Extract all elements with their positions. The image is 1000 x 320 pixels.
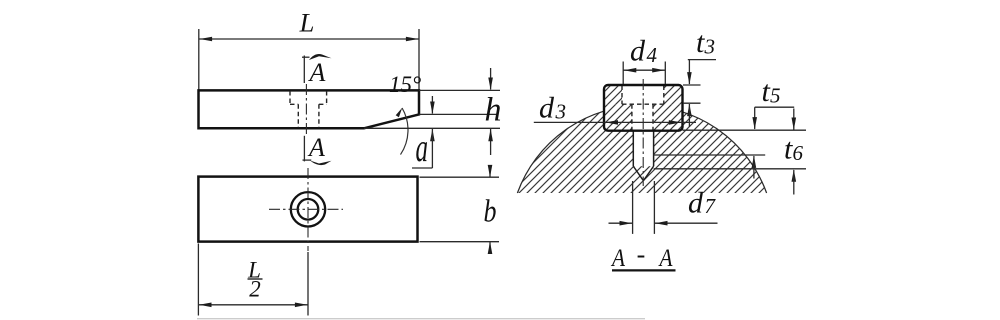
svg-text:d: d [539, 92, 555, 125]
svg-text:3: 3 [704, 35, 716, 59]
dimension b arrows [488, 165, 493, 254]
section title A-A [610, 240, 675, 272]
label t6 [784, 133, 804, 166]
dimension L extension lines [199, 29, 419, 90]
boss body with hatch [604, 85, 683, 131]
label d3 [539, 92, 566, 125]
faint table line bottom [197, 318, 645, 320]
dimension t3 arrows [687, 60, 716, 127]
svg-text:a: a [416, 125, 429, 170]
svg-text:6: 6 [793, 141, 804, 165]
extension line C cone level [654, 168, 806, 170]
label L over 2 [247, 258, 262, 302]
hole circle inner [298, 199, 319, 220]
extension line B hole depth [654, 154, 766, 156]
hidden hole dashed lines top view [298, 104, 319, 127]
svg-text:d: d [688, 187, 704, 220]
label A bottom [307, 133, 325, 162]
label h [485, 92, 502, 129]
dimension L half line with arrows [198, 303, 308, 308]
boss top extension line right [683, 84, 701, 86]
hole hidden dashed in boss [632, 104, 653, 130]
centerline vertical bar [305, 84, 307, 136]
svg-text:4: 4 [647, 43, 658, 67]
svg-text:5: 5 [770, 84, 781, 108]
svg-text:-: - [637, 240, 646, 269]
svg-text:h: h [485, 92, 502, 129]
dimension h arrows [488, 68, 493, 155]
svg-text:2: 2 [249, 277, 261, 302]
dimension d4 extension lines [623, 62, 665, 85]
centerline vertical section [642, 79, 644, 186]
dimension t6 arrows [792, 109, 797, 195]
section marker A bottom [303, 136, 332, 165]
label L [299, 8, 315, 38]
svg-text:b: b [484, 193, 497, 229]
hatched dome section [517, 106, 766, 193]
bar outline side view [199, 90, 420, 128]
svg-text:A: A [658, 245, 673, 272]
drill cone tip [633, 166, 653, 181]
centerline horizontal circle [269, 208, 343, 210]
label d4 [630, 35, 658, 68]
counterbore circle outer [291, 192, 325, 226]
label 15 degrees [389, 72, 421, 97]
label b [484, 193, 497, 229]
dimension L line with arrows [199, 37, 419, 42]
dimension d3 line with arrows [534, 120, 696, 125]
label a [416, 125, 429, 170]
counterbore hidden dashed section [622, 86, 664, 105]
chamfer level extension line [419, 113, 497, 115]
svg-text:A: A [610, 245, 625, 272]
hole channel in dome [633, 130, 653, 166]
label d7 [688, 187, 717, 220]
dimension b extension lines [420, 177, 500, 242]
extension line A boss bottom [683, 129, 807, 131]
plan view rectangle [198, 177, 417, 242]
boss outline [604, 85, 683, 131]
svg-text:L: L [299, 8, 315, 38]
section marker A top [302, 54, 332, 83]
svg-text:7: 7 [705, 194, 717, 218]
counterbore bottom extension line right [683, 102, 701, 104]
dimension a arrows [412, 96, 435, 168]
dimension d4 line with arrows [623, 68, 665, 73]
label t5 [762, 75, 781, 108]
hidden counterbore dashed lines top view [290, 91, 327, 104]
centerline vertical circle [307, 168, 309, 251]
svg-text:3: 3 [555, 100, 567, 124]
bar bottom edge extension line [364, 127, 500, 129]
dimension d7 extension lines [633, 181, 655, 234]
label A top [308, 58, 326, 87]
dimension t5 arrows [752, 107, 795, 178]
label t3 [696, 26, 715, 59]
dimension d7 line with arrows [609, 221, 718, 226]
svg-text:A: A [307, 133, 325, 162]
angle arc 15 degrees [396, 108, 408, 155]
svg-text:d: d [630, 35, 646, 68]
svg-text:A: A [308, 58, 326, 87]
svg-text:15°: 15° [389, 72, 421, 97]
dimension L half extension lines [198, 244, 308, 316]
bar top edge extension line [419, 89, 500, 91]
